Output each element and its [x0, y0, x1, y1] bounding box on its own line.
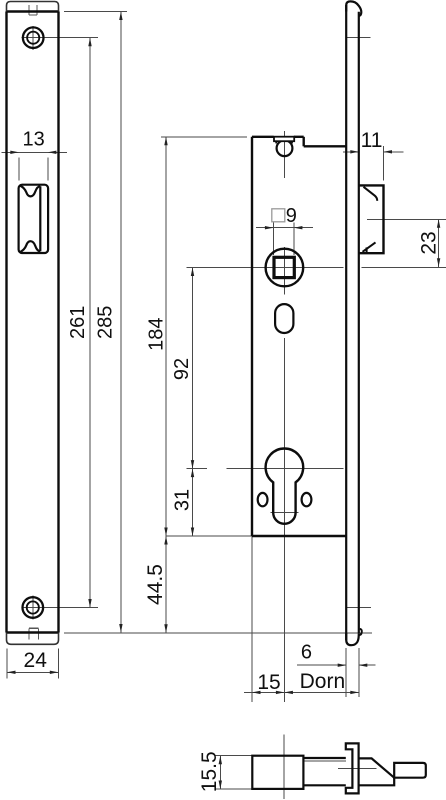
svg-text:11: 11 [361, 129, 383, 152]
svg-text:15: 15 [257, 671, 280, 694]
svg-text:24: 24 [24, 649, 48, 672]
svg-text:285: 285 [95, 306, 117, 339]
svg-text:15.5: 15.5 [198, 751, 221, 792]
svg-text:44.5: 44.5 [144, 564, 167, 605]
svg-text:261: 261 [67, 306, 89, 339]
svg-text:23: 23 [417, 231, 440, 254]
svg-text:92: 92 [171, 358, 193, 380]
svg-text:184: 184 [146, 318, 168, 351]
svg-text:13: 13 [22, 128, 44, 150]
svg-text:6: 6 [301, 642, 312, 664]
svg-text:9: 9 [286, 205, 297, 227]
svg-text:Dorn: Dorn [300, 670, 346, 693]
svg-text:31: 31 [172, 489, 194, 511]
